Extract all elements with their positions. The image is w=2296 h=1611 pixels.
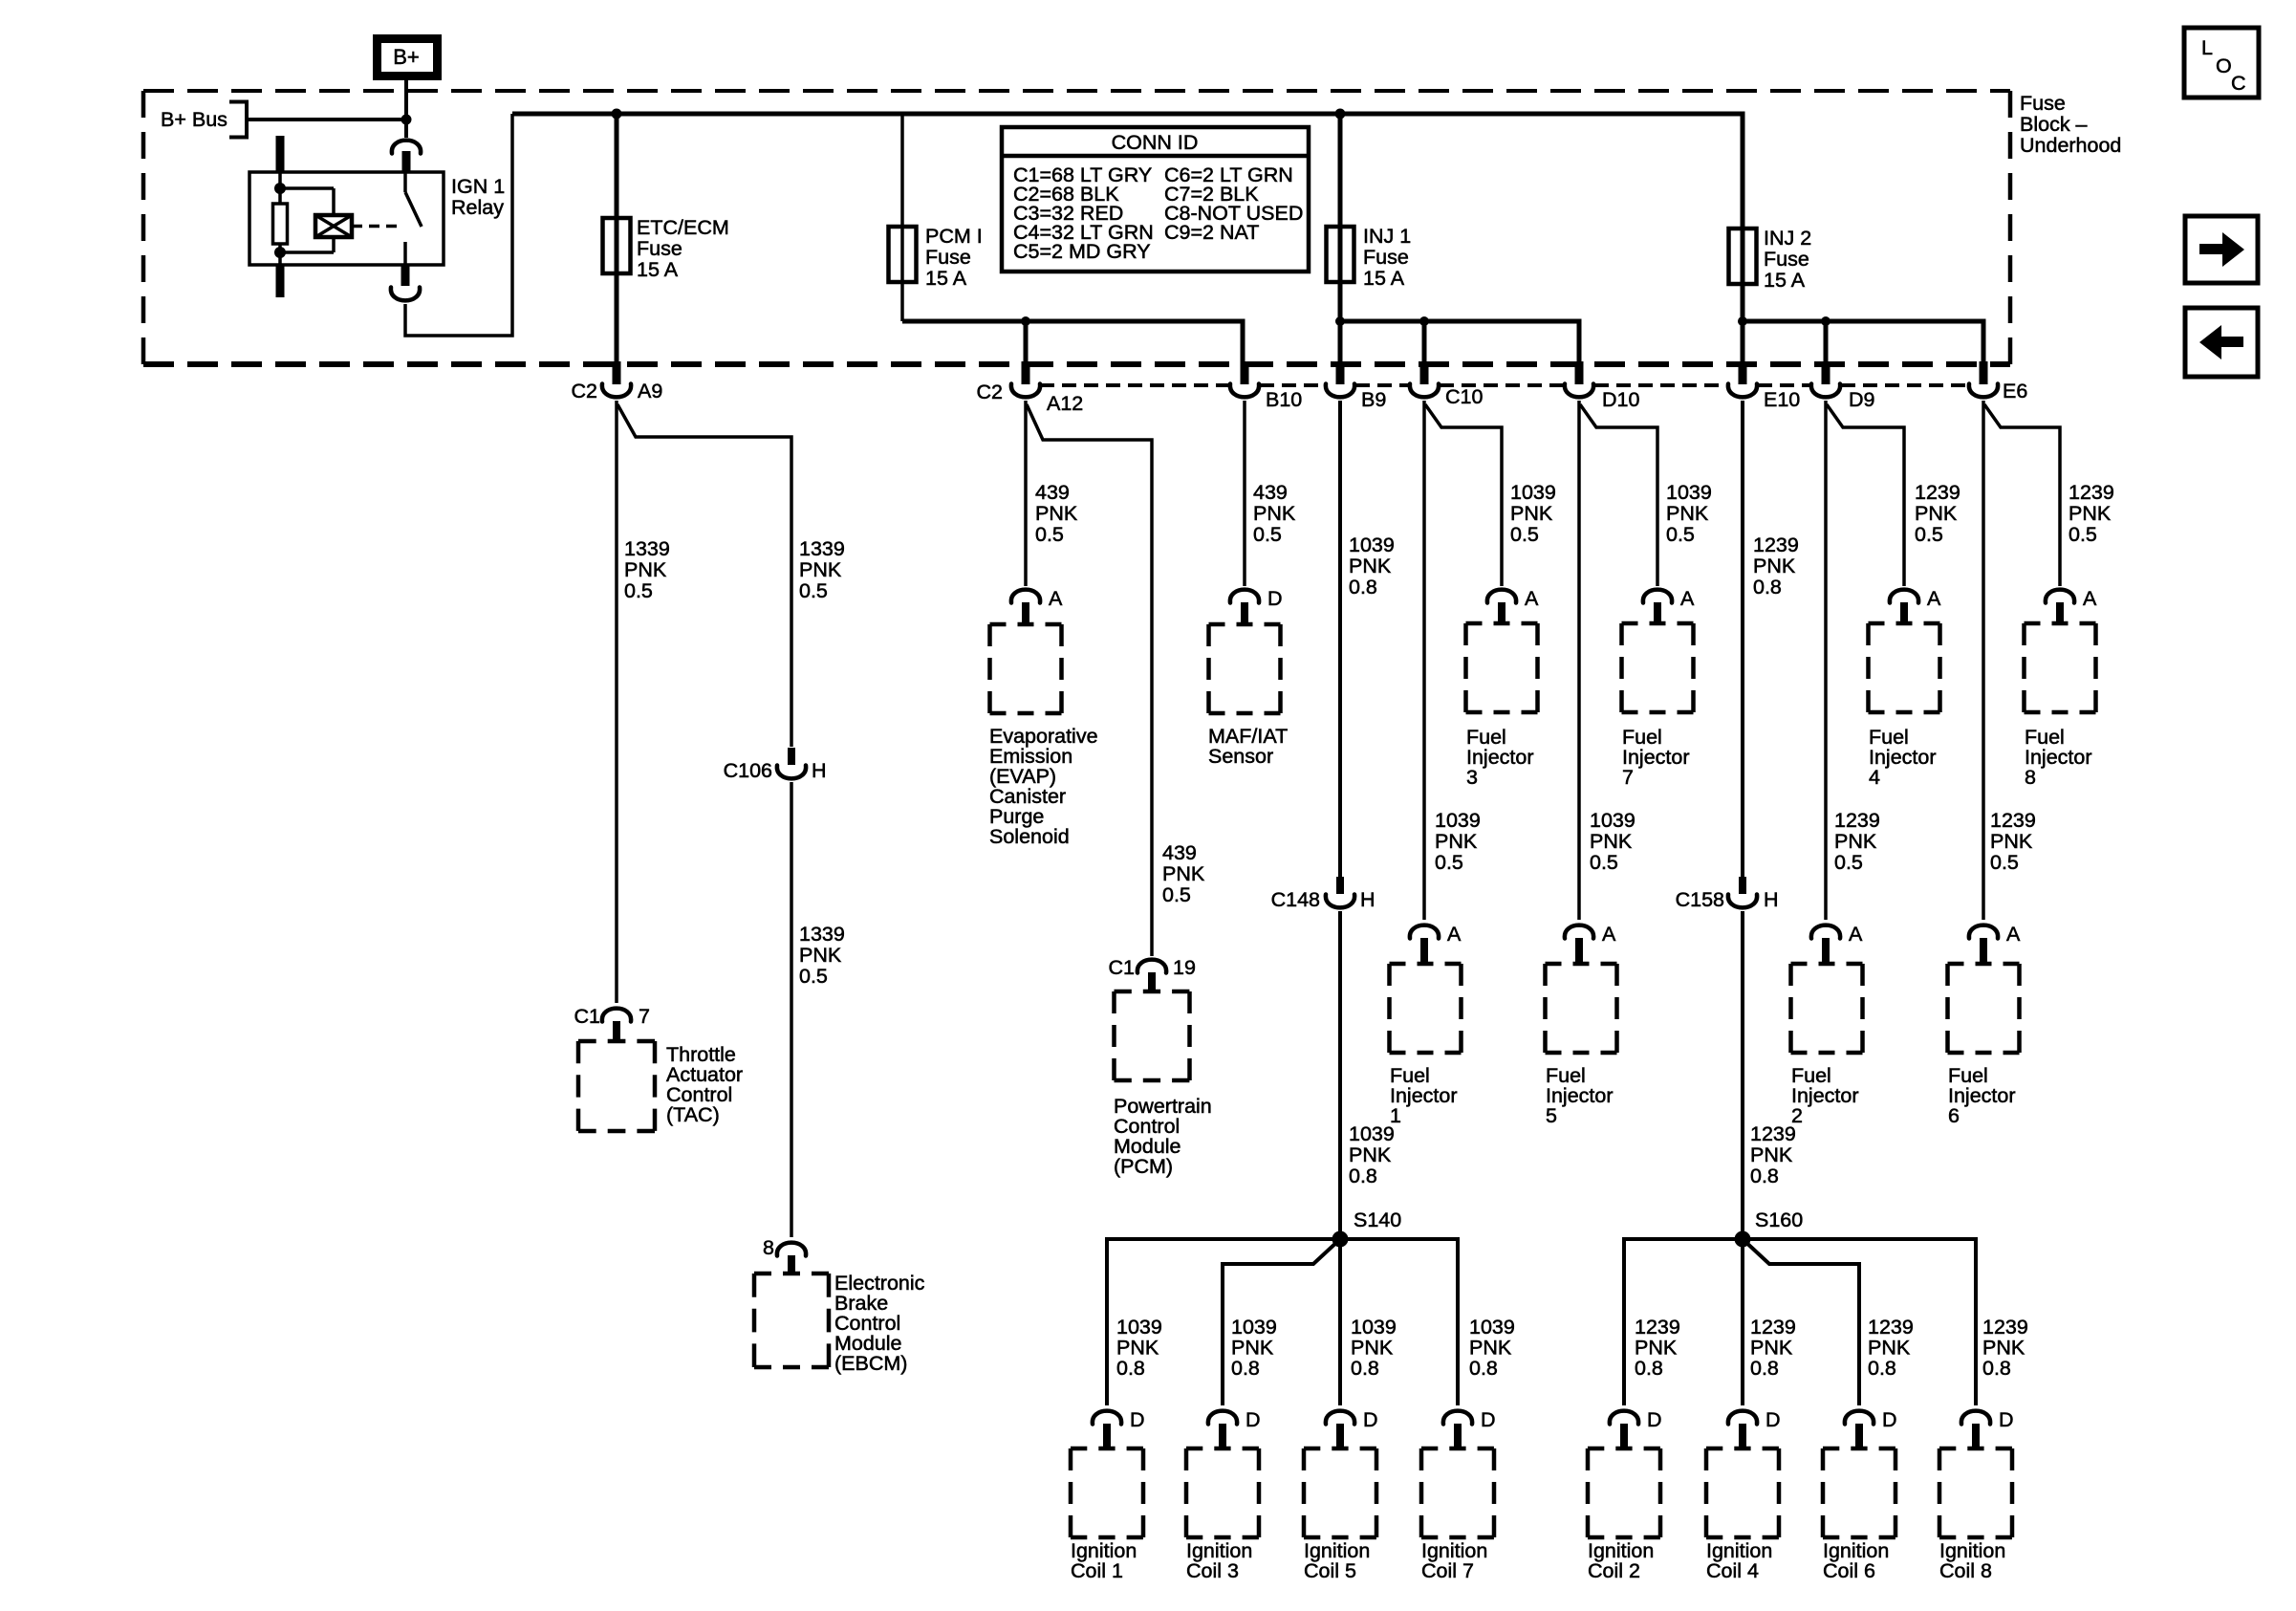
wire 1239 PNK 0.8: S160 to ignition coil 8 (1743, 1239, 1976, 1405)
svg-text:PNK: PNK (1834, 830, 1877, 853)
svg-text:PNK: PNK (1162, 862, 1205, 885)
electronic brake control module EBCM (dashed box) (754, 1274, 829, 1367)
svg-text:PNK: PNK (1349, 555, 1392, 577)
svg-text:D: D (1999, 1408, 2014, 1431)
relay pin 30 connector (from B+) (392, 141, 421, 173)
svg-text:A: A (1049, 587, 1063, 610)
wire 1239 PNK 0.8: S160 to ignition coil 6 (1743, 1239, 1859, 1405)
node: bus tee to ETC/ECM fuse (612, 109, 622, 120)
label: Fuel Injector 8 (2025, 726, 2092, 789)
svg-text:1039: 1039 (1231, 1316, 1277, 1339)
svg-text:0.8: 0.8 (1351, 1357, 1379, 1380)
svg-text:1: 1 (1390, 1104, 1401, 1127)
svg-text:Coil 8: Coil 8 (1939, 1559, 1992, 1582)
svg-text:0.5: 0.5 (1590, 851, 1618, 874)
label: Fuse Block - Underhood (2020, 92, 2121, 157)
ignition coil 4 (dashed box) (1706, 1448, 1779, 1537)
wire: INJ 2 fuse sub-bus to D9 and E6 (1743, 321, 1983, 361)
svg-text:0.5: 0.5 (1435, 851, 1463, 874)
label: 1239 PNK 0.5 (FI4) (1915, 481, 1960, 546)
svg-text:C148: C148 (1271, 888, 1320, 911)
label: Fuel Injector 3 (1466, 726, 1534, 789)
svg-text:1039: 1039 (1666, 481, 1712, 504)
svg-text:439: 439 (1253, 481, 1288, 504)
svg-text:PNK: PNK (1351, 1337, 1394, 1360)
svg-text:1039: 1039 (1510, 481, 1556, 504)
svg-text:B10: B10 (1266, 388, 1302, 411)
fuse PCM I 15 A (889, 227, 917, 282)
svg-text:1039: 1039 (1435, 809, 1481, 832)
svg-text:0.8: 0.8 (1868, 1357, 1896, 1380)
wire 1039 PNK 0.8: S140 to ignition coil 3 (1223, 1239, 1340, 1405)
svg-text:0.5: 0.5 (1915, 523, 1943, 546)
label: Evaporative Emission (EVAP) Canister Purge Solenoid (989, 725, 1098, 848)
wire 1339 PNK 0.5: A9 branch to EBCM via C106 (617, 404, 791, 747)
connector D at ignition coil 8 (1961, 1408, 2014, 1450)
label: 1239 PNK 0.8 (to S160) (1750, 1122, 1796, 1187)
svg-text:A: A (1602, 923, 1616, 946)
svg-text:PNK: PNK (2069, 502, 2112, 525)
svg-text:1039: 1039 (1469, 1316, 1515, 1339)
label: PCM I Fuse 15 A (925, 225, 983, 290)
label: Ignition Coil 5 (1304, 1539, 1370, 1582)
ignition coil 8 (dashed box) (1939, 1448, 2012, 1537)
label: 1239 PNK 0.8 (ignition coil 8) (1982, 1316, 2028, 1380)
fuse INJ 2 15 A (1729, 229, 1757, 284)
wire 1239 PNK 0.8: S160 to ignition coil 2 (1624, 1239, 1743, 1405)
label: MAF/IAT Sensor (1208, 725, 1288, 768)
svg-text:PNK: PNK (1982, 1337, 2025, 1360)
svg-text:0.8: 0.8 (1231, 1357, 1260, 1380)
svg-text:PNK: PNK (1469, 1337, 1512, 1360)
wire 1039 PNK 0.8: C148 to splice S140 (1338, 911, 1342, 1239)
connector A at fuel injector 1 (1410, 923, 1462, 966)
svg-text:PNK: PNK (624, 558, 667, 581)
svg-text:A: A (1927, 587, 1941, 610)
label: 1239 PNK 0.5 (FI6) (1990, 809, 2036, 874)
legend: LOC reference box (2184, 28, 2259, 98)
label: INJ 1 Fuse 15 A (1363, 225, 1411, 290)
connector A at fuel injector 6 (1969, 923, 2021, 966)
svg-text:1339: 1339 (624, 537, 670, 560)
svg-text:8: 8 (2025, 766, 2036, 789)
wire 1039 PNK 0.5: C10 branch to fuel injector 3 (1425, 404, 1502, 586)
label: 1339 PNK 0.5 (EBCM upper) (799, 537, 845, 602)
svg-text:B+ Bus: B+ Bus (161, 108, 227, 131)
svg-text:5: 5 (1546, 1104, 1557, 1127)
label: Powertrain Control Module (PCM) (1114, 1095, 1212, 1178)
connector D at ignition coil 7 (1443, 1408, 1496, 1450)
fuel injector 4 (dashed box) (1869, 623, 1940, 712)
svg-text:B+: B+ (393, 45, 420, 69)
svg-text:0.5: 0.5 (1834, 851, 1863, 874)
label: Ignition Coil 8 (1939, 1539, 2005, 1582)
label: 1239 PNK 0.5 (FI2) (1834, 809, 1880, 874)
connector A at fuel injector 3 (1487, 587, 1539, 625)
wire: pin A12 drop (1024, 321, 1029, 361)
svg-text:1239: 1239 (1868, 1316, 1914, 1339)
svg-text:Fuse: Fuse (2020, 92, 2066, 115)
svg-text:H: H (812, 759, 827, 782)
svg-text:0.8: 0.8 (1349, 1165, 1377, 1187)
svg-text:19: 19 (1173, 956, 1196, 979)
svg-text:Sensor: Sensor (1208, 745, 1273, 768)
connector pin B9 (1326, 361, 1386, 411)
label: 439 PNK 0.5 (EVAP) (1035, 481, 1078, 546)
svg-text:A: A (2083, 587, 2097, 610)
svg-text:Fuse: Fuse (637, 237, 682, 260)
svg-text:0.8: 0.8 (1753, 576, 1782, 599)
svg-text:PNK: PNK (1510, 502, 1553, 525)
svg-text:0.5: 0.5 (1162, 883, 1191, 906)
label: 1039 PNK 0.5 (FI3) (1510, 481, 1556, 546)
svg-text:0.5: 0.5 (1253, 523, 1282, 546)
svg-text:439: 439 (1035, 481, 1070, 504)
relay output pin connector (cup) (391, 264, 420, 300)
svg-text:Solenoid: Solenoid (989, 825, 1070, 848)
connector A at fuel injector 2 (1811, 923, 1863, 966)
ignition coil 5 (dashed box) (1304, 1448, 1376, 1537)
connector C158 pin H (1676, 877, 1779, 911)
connector A at fuel injector 8 (2046, 587, 2097, 625)
svg-text:PCM I: PCM I (925, 225, 983, 248)
node: tee at INJ 1 drop (1335, 316, 1345, 326)
svg-text:PNK: PNK (1750, 1143, 1793, 1166)
label: 1239 PNK 0.8 (ignition coil 2) (1635, 1316, 1680, 1380)
label: 1239 PNK 0.8 (ignition coil 6) (1868, 1316, 1914, 1380)
fuel injector 8 (dashed box) (2025, 623, 2096, 712)
svg-text:Underhood: Underhood (2020, 134, 2121, 157)
svg-text:0.8: 0.8 (1116, 1357, 1145, 1380)
svg-text:1039: 1039 (1116, 1316, 1162, 1339)
connector pin C10 (1410, 361, 1484, 408)
svg-text:0.8: 0.8 (1469, 1357, 1498, 1380)
svg-text:PNK: PNK (799, 944, 842, 967)
svg-text:0.5: 0.5 (799, 579, 828, 602)
connector C148 pin H (1271, 877, 1375, 911)
svg-text:PNK: PNK (1116, 1337, 1159, 1360)
fuel injector 7 (dashed box) (1622, 623, 1694, 712)
label: Ignition Coil 4 (1706, 1539, 1772, 1582)
svg-text:15 A: 15 A (1363, 267, 1405, 290)
label: CONN ID left column (1013, 163, 1154, 263)
svg-text:PNK: PNK (1750, 1337, 1793, 1360)
svg-text:Coil 6: Coil 6 (1823, 1559, 1875, 1582)
svg-text:INJ 2: INJ 2 (1764, 227, 1811, 250)
fuse INJ 1 15 A (1327, 227, 1354, 282)
svg-text:Block –: Block – (2020, 113, 2088, 136)
ignition coil 3 (dashed box) (1186, 1448, 1259, 1537)
label: Ignition Coil 6 (1823, 1539, 1889, 1582)
wire 1039 PNK 0.5: C10 to fuel injector 1 (1422, 401, 1426, 920)
svg-text:PNK: PNK (1349, 1143, 1392, 1166)
label: 439 PNK 0.5 (MAF) (1253, 481, 1296, 546)
connector pin D10 (1565, 361, 1640, 411)
svg-text:E6: E6 (2003, 380, 2027, 403)
ignition coil 2 (dashed box) (1588, 1448, 1660, 1537)
svg-text:A: A (1525, 587, 1539, 610)
wire 1239 PNK 0.5: E6 branch to fuel injector 8 (1984, 404, 2060, 586)
svg-text:(TAC): (TAC) (666, 1103, 720, 1126)
svg-text:7: 7 (639, 1005, 650, 1028)
svg-text:1339: 1339 (799, 537, 845, 560)
svg-text:0.8: 0.8 (1750, 1357, 1779, 1380)
label: Fuel Injector 7 (1622, 726, 1690, 789)
connector pin D9 (1811, 361, 1875, 411)
wire 1039 PNK 0.5: D10 branch to fuel injector 7 (1580, 404, 1657, 586)
label: 1039 PNK 0.8 (ignition coil 1) (1116, 1316, 1162, 1380)
svg-text:INJ 1: INJ 1 (1363, 225, 1411, 248)
powertrain control module PCM (dashed box) (1115, 991, 1190, 1080)
connector D at ignition coil 1 (1093, 1408, 1145, 1450)
svg-text:PNK: PNK (1990, 830, 2033, 853)
label: 1039 PNK 0.5 (FI5) (1590, 809, 1635, 874)
connector C1 pin 7 at TAC (574, 1005, 650, 1043)
wire: pin C10 drop (1422, 321, 1427, 361)
node: bus tee to INJ 1 fuse (1335, 109, 1346, 120)
wire 1339 PNK 0.5: C106 to EBCM (790, 782, 793, 1237)
connector pin B10 (1230, 361, 1302, 411)
svg-text:D10: D10 (1602, 388, 1639, 411)
relay IGN 1: case (249, 172, 444, 265)
connector C1 pin 19 at PCM (1109, 956, 1196, 993)
fuel injector 2 (dashed box) (1791, 964, 1863, 1053)
label: Fuel Injector 5 (1546, 1064, 1614, 1127)
svg-text:C106: C106 (724, 759, 772, 782)
svg-text:6: 6 (1948, 1104, 1960, 1127)
label: 1239 PNK 0.5 (FI8) (2069, 481, 2114, 546)
svg-text:15 A: 15 A (1764, 269, 1806, 292)
svg-text:A: A (1447, 923, 1462, 946)
svg-text:1239: 1239 (1753, 533, 1799, 556)
svg-text:PNK: PNK (799, 558, 842, 581)
ignition coil 1 (dashed box) (1071, 1448, 1143, 1537)
label: INJ 2 Fuse 15 A (1764, 227, 1811, 292)
connector D at ignition coil 4 (1728, 1408, 1781, 1450)
label: 1039 PNK 0.5 (FI1) (1435, 809, 1481, 874)
splice S160 (1735, 1208, 1804, 1248)
svg-text:D: D (1363, 1408, 1378, 1431)
svg-text:1039: 1039 (1349, 1122, 1395, 1145)
svg-text:Relay: Relay (451, 196, 504, 219)
node: B+ bus junction (401, 115, 412, 125)
svg-text:B9: B9 (1361, 388, 1386, 411)
svg-text:PNK: PNK (1035, 502, 1078, 525)
svg-text:C5=2 MD GRY: C5=2 MD GRY (1013, 240, 1151, 263)
label: Fuel Injector 2 (1791, 1064, 1859, 1127)
wire 1239 PNK 0.5: D9 branch to fuel injector 4 (1827, 404, 1904, 586)
relay internal dashed link (352, 225, 401, 229)
label: 1039 PNK 0.8 (ignition coil 5) (1351, 1316, 1397, 1380)
svg-text:D9: D9 (1849, 388, 1874, 411)
svg-text:1039: 1039 (1349, 533, 1395, 556)
svg-text:PNK: PNK (1435, 830, 1478, 853)
label: Ignition Coil 7 (1421, 1539, 1487, 1582)
fuel injector 3 (dashed box) (1466, 623, 1538, 712)
label: CONN ID right column (1164, 163, 1303, 244)
wire: INJ 1 fuse sub-bus to C10 and D10 (1340, 321, 1579, 361)
wire: feed through PCM I fuse (900, 114, 904, 321)
svg-text:D: D (1245, 1408, 1261, 1431)
svg-text:ETC/ECM: ETC/ECM (637, 216, 729, 239)
svg-text:1239: 1239 (2069, 481, 2114, 504)
connector bus dashed line (connector C2) (1040, 383, 1968, 387)
connector D at MAF/IAT sensor (1230, 587, 1283, 626)
svg-text:15 A: 15 A (925, 267, 967, 290)
connector A at fuel injector 7 (1643, 587, 1695, 625)
label: 1039 PNK 0.8 (ignition coil 7) (1469, 1316, 1515, 1380)
wire: main power bus (512, 112, 1743, 117)
svg-text:A: A (1680, 587, 1695, 610)
svg-text:0.5: 0.5 (1035, 523, 1064, 546)
label: Ignition Coil 2 (1588, 1539, 1654, 1582)
svg-text:H: H (1360, 888, 1375, 911)
fuel injector 5 (dashed box) (1546, 964, 1617, 1053)
wire 1039 PNK 0.5: D10 to fuel injector 5 (1577, 401, 1581, 920)
svg-text:0.5: 0.5 (1510, 523, 1539, 546)
svg-text:2: 2 (1791, 1104, 1803, 1127)
label: 1239 PNK 0.8 (ignition coil 4) (1750, 1316, 1796, 1380)
svg-text:D: D (1882, 1408, 1897, 1431)
connector D at ignition coil 2 (1610, 1408, 1662, 1450)
svg-text:PNK: PNK (1635, 1337, 1678, 1360)
svg-text:1239: 1239 (1990, 809, 2036, 832)
wire: relay output to main bus (405, 114, 512, 336)
svg-text:PNK: PNK (1231, 1337, 1274, 1360)
label: Ignition Coil 1 (1071, 1539, 1137, 1582)
svg-text:Coil 3: Coil 3 (1186, 1559, 1239, 1582)
ignition coil 6 (dashed box) (1823, 1448, 1895, 1537)
connector C2 pin A12 (977, 361, 1084, 415)
svg-text:Fuse: Fuse (925, 246, 971, 269)
fuel injector 6 (dashed box) (1948, 964, 2020, 1053)
svg-text:0.5: 0.5 (1990, 851, 2019, 874)
connector A at fuel injector 5 (1565, 923, 1616, 966)
wire: feed through INJ 2 fuse (1741, 112, 1745, 322)
svg-text:0.8: 0.8 (1982, 1357, 2011, 1380)
svg-text:D: D (1481, 1408, 1496, 1431)
svg-text:1039: 1039 (1590, 809, 1635, 832)
svg-text:7: 7 (1622, 766, 1634, 789)
svg-text:S160: S160 (1755, 1208, 1803, 1231)
svg-text:A12: A12 (1047, 392, 1083, 415)
splice S140 (1332, 1208, 1402, 1248)
svg-text:1239: 1239 (1750, 1316, 1796, 1339)
svg-text:0.8: 0.8 (1750, 1165, 1779, 1187)
svg-text:(EBCM): (EBCM) (834, 1352, 907, 1375)
svg-text:C2: C2 (977, 381, 1003, 403)
svg-text:1039: 1039 (1351, 1316, 1397, 1339)
wire 1039 PNK 0.8: S140 to ignition coil 7 (1340, 1239, 1458, 1405)
svg-text:O: O (2216, 54, 2232, 77)
wire 439 PNK 0.5: B10 to MAF/IAT sensor (1243, 401, 1246, 586)
svg-text:1239: 1239 (1915, 481, 1960, 504)
label: Ignition Coil 3 (1186, 1539, 1252, 1582)
svg-text:PNK: PNK (1253, 502, 1296, 525)
svg-text:A: A (1849, 923, 1863, 946)
label: 1339 PNK 0.5 (EBCM lower) (799, 923, 845, 988)
label: 1339 PNK 0.5 (TAC) (624, 537, 670, 602)
wire 1239 PNK 0.5: D9 to fuel injector 2 (1824, 401, 1828, 920)
svg-text:C: C (2231, 72, 2246, 95)
svg-text:D: D (1647, 1408, 1662, 1431)
B+ Bus tap bracket (229, 102, 406, 138)
svg-text:0.8: 0.8 (1349, 576, 1377, 599)
svg-text:0.5: 0.5 (624, 579, 653, 602)
label: 1039 PNK 0.8 (ignition coil 3) (1231, 1316, 1277, 1380)
svg-text:C10: C10 (1445, 385, 1483, 408)
connector D at ignition coil 6 (1845, 1408, 1897, 1450)
svg-text:1239: 1239 (1750, 1122, 1796, 1145)
svg-text:(PCM): (PCM) (1114, 1155, 1173, 1178)
connector C2 pin A9 (572, 361, 663, 403)
svg-text:C1: C1 (1109, 956, 1135, 979)
connector A at EVAP solenoid (1011, 587, 1063, 626)
label: 439 PNK 0.5 (PCM) (1162, 841, 1205, 906)
svg-text:A9: A9 (638, 380, 662, 403)
node: tee to pin D9 (1821, 316, 1830, 326)
legend: arrow left box (2185, 308, 2258, 377)
relay coil winding (box with X) (280, 188, 352, 252)
svg-text:A: A (2006, 923, 2021, 946)
wire 1039 PNK 0.8: S140 to ignition coil 5 (1338, 1239, 1342, 1405)
svg-text:0.8: 0.8 (1635, 1357, 1663, 1380)
svg-text:PNK: PNK (1868, 1337, 1911, 1360)
CONN ID table frame (1002, 127, 1309, 272)
wire 1339 PNK 0.5: A9 to TAC (615, 401, 618, 1003)
label: Electronic Brake Control Module (EBCM) (834, 1272, 925, 1375)
svg-text:D: D (1130, 1408, 1145, 1431)
connector D at ignition coil 3 (1208, 1408, 1261, 1450)
label: 1039 PNK 0.8 (B9) (1349, 533, 1395, 599)
svg-text:C1: C1 (574, 1005, 600, 1028)
svg-text:C9=2 NAT: C9=2 NAT (1164, 221, 1259, 244)
svg-text:8: 8 (763, 1236, 774, 1259)
label: 1039 PNK 0.5 (FI7) (1666, 481, 1712, 546)
svg-text:PNK: PNK (1915, 502, 1958, 525)
svg-text:S140: S140 (1354, 1208, 1401, 1231)
svg-text:PNK: PNK (1590, 830, 1633, 853)
MAF/IAT sensor (dashed box) (1209, 624, 1281, 713)
wire 439 PNK 0.5: A12 to EVAP solenoid (1024, 401, 1028, 586)
node: tee at INJ 2 drop (1738, 316, 1747, 326)
ignition coil 7 (dashed box) (1421, 1448, 1494, 1537)
label: Fuel Injector 1 (1390, 1064, 1458, 1127)
svg-text:1339: 1339 (799, 923, 845, 946)
connector C106 pin H (724, 748, 827, 782)
wire 1239 PNK 0.8: S160 to ignition coil 4 (1741, 1239, 1744, 1405)
node: tee to pin A12 (1021, 316, 1030, 326)
svg-text:1239: 1239 (1982, 1316, 2028, 1339)
svg-text:Coil 1: Coil 1 (1071, 1559, 1123, 1582)
relay switch (405, 172, 422, 265)
label: Fuel Injector 6 (1948, 1064, 2016, 1127)
svg-text:15 A: 15 A (637, 258, 679, 281)
svg-text:0.5: 0.5 (799, 965, 828, 988)
svg-text:Fuse: Fuse (1764, 248, 1809, 271)
svg-text:Coil 7: Coil 7 (1421, 1559, 1474, 1582)
wire: feed through INJ 1 fuse (1338, 114, 1343, 361)
svg-text:Fuse: Fuse (1363, 246, 1409, 269)
svg-text:PNK: PNK (1666, 502, 1709, 525)
svg-text:Coil 2: Coil 2 (1588, 1559, 1640, 1582)
svg-text:Coil 5: Coil 5 (1304, 1559, 1356, 1582)
svg-text:E10: E10 (1764, 388, 1800, 411)
svg-text:C2: C2 (572, 380, 597, 403)
svg-text:PNK: PNK (1753, 555, 1796, 577)
label: Throttle Actuator Control (TAC) (666, 1043, 743, 1126)
relay coil pin stubs (276, 136, 285, 297)
